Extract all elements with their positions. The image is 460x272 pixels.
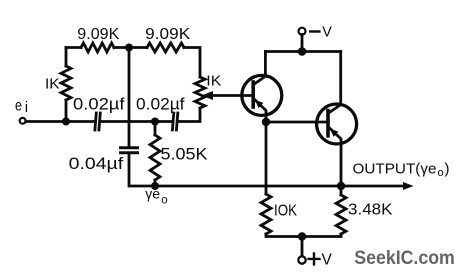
capacitor 0.02uf right: [172, 113, 177, 130]
svg-text:3.48K: 3.48K: [348, 201, 393, 218]
resistor 1K left: [61, 66, 71, 100]
svg-text:o: o: [161, 194, 167, 206]
node dot top center: [125, 44, 133, 52]
svg-text:γe: γe: [145, 186, 160, 202]
wire left vertical bottom: [65, 100, 68, 122]
resistor 10K: [261, 194, 271, 234]
wire Q1 emitter to Q2 base: [266, 121, 328, 124]
svg-text:V: V: [322, 252, 333, 269]
label +V: [309, 253, 320, 264]
svg-text:5.05K: 5.05K: [161, 146, 208, 164]
svg-text:): ): [445, 161, 450, 178]
resistor 5.05K: [150, 135, 160, 180]
node dot caps junction: [151, 118, 159, 126]
wire 5.05K branch top: [154, 122, 157, 136]
supply rail -V: [265, 50, 340, 53]
wire top rail right segment: [184, 48, 200, 78]
resistor 9.09K left: [81, 43, 114, 52]
wire cap1 to node: [102, 120, 154, 123]
resistor 3.48K: [336, 195, 346, 234]
capacitor 0.02uf left: [95, 113, 100, 130]
wire mid vertical lower to feedback corner: [129, 155, 152, 187]
+V terminal: [298, 237, 305, 264]
wire top rail mid segment: [114, 46, 147, 49]
svg-text:IK: IK: [206, 73, 221, 90]
label 10K: [274, 203, 298, 220]
label 9.09K right: [145, 26, 190, 43]
potentiometer wiper arrow: [202, 91, 254, 100]
input terminal ei: [20, 118, 26, 124]
label 9.09K left: [77, 26, 119, 43]
svg-text:o: o: [438, 167, 444, 179]
wire Q1 emitter branch down: [265, 122, 268, 194]
node dot Q1 emitter / Q2 base: [262, 118, 270, 126]
transistor Q2: [317, 52, 357, 187]
label 0.02uf left: [73, 95, 125, 114]
label 1K left: [45, 76, 60, 93]
potentiometer 1K right: [195, 77, 205, 108]
label -V: [310, 30, 319, 32]
capacitor 0.04uf: [121, 148, 138, 153]
svg-text:i: i: [25, 99, 28, 116]
label 0.02uf right: [136, 95, 185, 114]
wire mid vertical upper: [128, 48, 131, 147]
node dot -V rail: [298, 47, 307, 56]
node dot bottom-left junction: [62, 118, 70, 126]
svg-text:0.02µf: 0.02µf: [136, 95, 185, 114]
svg-text:e: e: [15, 97, 22, 114]
watermark SeekIC.com: [354, 248, 455, 269]
wire output line: [155, 185, 404, 188]
output arrowhead: [403, 182, 414, 190]
wire 3.48K top stub: [340, 186, 343, 195]
node gamma-e0: [151, 182, 159, 190]
-V terminal: [299, 28, 306, 50]
label 0.04uf: [69, 154, 124, 173]
wire left vertical top: [65, 48, 68, 67]
label ei: [15, 97, 28, 116]
svg-text:0.04µf: 0.04µf: [69, 154, 124, 173]
svg-text:IK: IK: [45, 76, 60, 93]
svg-text:V: V: [322, 24, 332, 40]
wire input to C1: [26, 120, 94, 123]
svg-text:SeekIC.com: SeekIC.com: [354, 248, 455, 269]
svg-text:0.02µf: 0.02µf: [73, 95, 125, 114]
svg-text:9.09K: 9.09K: [77, 26, 119, 43]
label gamma-e0: [145, 186, 167, 207]
label 5.05K: [161, 146, 208, 164]
wire top rail left segment: [66, 46, 81, 49]
svg-text:9.09K: 9.09K: [145, 26, 190, 43]
transistor Q1: [242, 52, 282, 123]
svg-text:IOK: IOK: [274, 203, 298, 220]
wire node to cap2: [157, 120, 172, 123]
wire cap2 to pot bottom: [180, 108, 201, 122]
label 1K right: [206, 73, 221, 90]
resistor 9.09K right: [147, 43, 184, 52]
node dot output: [337, 182, 345, 190]
node dot +V junction: [298, 232, 306, 240]
label OUTPUT(ge0): [353, 161, 450, 180]
label 3.48K: [348, 201, 393, 218]
svg-text:OUTPUT(γe: OUTPUT(γe: [353, 161, 437, 178]
wire 5.05K bottom: [154, 180, 157, 186]
wire bottom supply: [266, 234, 341, 237]
